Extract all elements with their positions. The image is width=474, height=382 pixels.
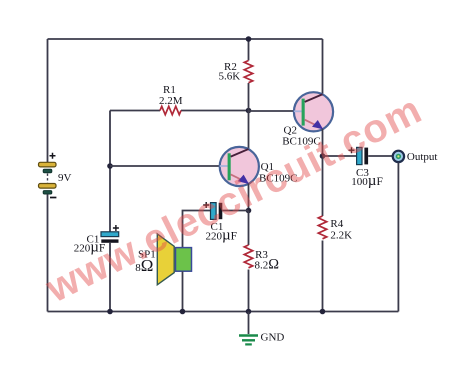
wire left bus lower (C1 to bottom rail) — [109, 243, 111, 312]
svg-text:R4: R4 — [330, 218, 343, 230]
speaker SP1 — [157, 234, 191, 285]
ground — [239, 312, 258, 345]
junction bottom rail / R3 / ground — [246, 309, 252, 315]
capacitor C3 100uF — [349, 147, 369, 164]
transistor Q1 BC109C — [220, 147, 259, 186]
wire Q1 base — [110, 165, 220, 167]
wire C3 right to output — [368, 155, 392, 157]
wire C3 left — [323, 155, 357, 157]
wire speaker to bottom rail — [182, 271, 184, 311]
junction bottom rail / C1 left bus — [107, 309, 113, 315]
capacitor C1 (coupling) 220uF — [203, 202, 222, 219]
wire Q2 base — [249, 110, 295, 112]
wire Q2 collector from top rail — [322, 39, 324, 94]
svg-text:Output: Output — [407, 151, 438, 163]
svg-text:www.eleccircuit.com: www.eleccircuit.com — [38, 87, 428, 311]
wire bottom rail — [48, 311, 399, 313]
resistor R4 2.2K — [318, 156, 326, 312]
junction R1 / R2 / Q1 collector / Q2 base — [246, 108, 252, 114]
svg-text:5.6K: 5.6K — [219, 71, 241, 83]
junction left bus / Q1 base wire — [107, 163, 113, 169]
junction bottom rail / R4 — [320, 309, 326, 315]
junction top rail / R2 — [246, 36, 252, 42]
svg-text:9V: 9V — [58, 172, 72, 184]
wire battery positive to top rail — [47, 39, 49, 162]
wire battery negative to bottom rail — [47, 194, 49, 311]
output terminal — [393, 151, 404, 162]
resistor R2 5.6K — [244, 39, 252, 111]
svg-text:2.2M: 2.2M — [159, 95, 183, 107]
wire Q1 collector — [248, 111, 250, 150]
wire Q1 emitter to C1 node — [248, 184, 250, 211]
junction Q1 emitter / C1 / R3 — [246, 208, 252, 214]
wire left bus upper (R1 left end down to C1) — [109, 111, 111, 232]
junction Q2 emitter / C3 / R4 — [320, 153, 326, 159]
junction bottom rail / speaker — [180, 309, 186, 315]
svg-text:100µF: 100µF — [351, 173, 383, 189]
wire C1 coupling to emitter junction — [222, 210, 248, 212]
svg-text:2.2K: 2.2K — [330, 230, 352, 242]
resistor R1 2.2M — [110, 106, 249, 114]
capacitor C1 (left) 220uF — [101, 225, 119, 243]
resistor R3 8.2ohm — [244, 211, 252, 312]
wire speaker top to C1 coupling — [183, 211, 211, 248]
battery B1 9V — [39, 153, 57, 198]
transistor Q2 BC109C — [294, 92, 333, 131]
svg-text:8.2Ω: 8.2Ω — [255, 257, 280, 273]
wire Q2 emitter to C3 node — [322, 129, 324, 156]
wire top rail — [48, 38, 323, 40]
wire output to bottom rail — [397, 163, 399, 312]
svg-text:GND: GND — [261, 332, 285, 344]
